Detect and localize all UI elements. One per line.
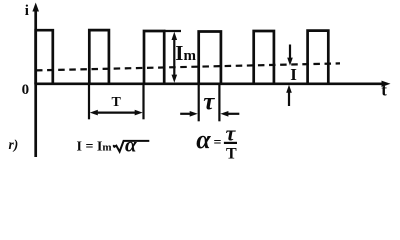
pulse 1: [36, 30, 53, 84]
formula alpha = tau/T: [196, 120, 237, 162]
T dimension extension line left: [88, 85, 90, 120]
svg-text:0: 0: [22, 82, 30, 98]
svg-text:τ: τ: [226, 120, 237, 145]
dashed average-current line: [36, 63, 340, 70]
tau dimension left arrow: [180, 111, 198, 117]
svg-text:i: i: [25, 3, 29, 19]
Im top tick: [164, 30, 181, 32]
T dimension double arrow: [90, 110, 143, 116]
I dimension up arrow (to baseline from below): [286, 85, 292, 106]
pulse 4: [199, 32, 221, 85]
I dimension down arrow (to dashed line): [287, 45, 293, 66]
svg-text:t: t: [381, 81, 387, 100]
svg-text:=: =: [214, 136, 222, 151]
pulse 2: [89, 30, 109, 84]
svg-text:α: α: [196, 125, 211, 154]
svg-text:T: T: [112, 95, 122, 110]
pulse 6: [308, 31, 329, 84]
tau dimension extension line right: [218, 85, 220, 122]
tau dimension extension line left: [198, 85, 200, 122]
pulse 3: [144, 31, 164, 84]
svg-text:I = Im·: I = Im·: [77, 140, 117, 155]
x-axis t: [34, 81, 390, 87]
svg-text:r): r): [9, 137, 19, 152]
y-axis i (vertical, continues below into next panel): [32, 3, 39, 158]
T dimension extension line right: [142, 85, 144, 120]
svg-text:I: I: [290, 65, 297, 84]
svg-text:T: T: [226, 145, 237, 162]
tau dimension right arrow: [220, 111, 239, 117]
formula I = Im*sqrt(alpha): [77, 132, 150, 156]
Im dimension arrow (vertical double-headed): [172, 32, 178, 83]
svg-text:α: α: [125, 132, 137, 156]
pulse 5: [254, 31, 274, 84]
svg-text:τ: τ: [203, 89, 215, 116]
